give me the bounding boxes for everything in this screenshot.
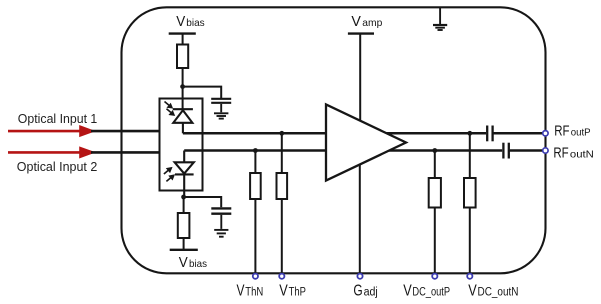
svg-text:Optical Input 1: Optical Input 1 — [18, 111, 98, 126]
svg-text:Optical Input 2: Optical Input 2 — [17, 159, 98, 174]
